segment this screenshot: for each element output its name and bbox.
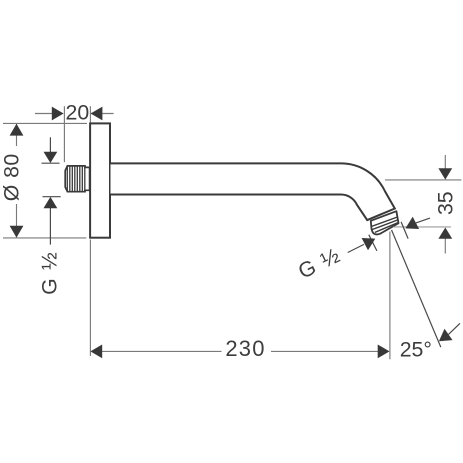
svg-text:25°: 25° [400,337,432,361]
G 1/2 outlet opposite arrow [416,218,430,223]
dim 35 top extension line [385,179,461,181]
knurl ridges [67,166,85,192]
dim 20 extension line left [63,106,65,162]
dim 20 dimension line left tail [35,113,114,115]
svg-text:Ø 80: Ø 80 [0,153,24,201]
dim 230 dimension line [102,350,379,352]
dim 230 arrowheads [90,345,389,359]
shower arm tube [111,163,395,220]
25 deg arc arrow [449,323,461,334]
dim O80 dimension line [16,124,18,237]
dim 35 bottom extension line [393,226,451,228]
svg-text:G ½: G ½ [38,251,62,295]
dim O80 bottom extension line [3,237,86,239]
wall plate P1 [90,123,110,237]
G 1/2 outlet tick lower-left [369,235,377,251]
25 deg line from nozzle [392,230,441,347]
svg-text:20: 20 [66,101,90,125]
dim 35 arrow top [444,155,446,169]
G 1/2 outlet tick upper-right [401,222,408,239]
dim 35 arrow bottom [444,239,446,254]
G 1/2 outlet leader arrow [348,244,364,252]
svg-text:230: 230 [225,336,265,361]
G 1/2 pointer arrow down [49,137,51,152]
knurled wall fitting body [65,166,89,192]
svg-text:35: 35 [433,191,457,215]
G 1/2 pointer arrow up [49,208,51,245]
dim O80 arrowheads [10,124,24,238]
dim O80 top extension line [3,122,87,124]
dim 230 extension line right (from nozzle tip) [389,232,391,360]
dim 20 arrowheads [52,107,103,121]
nozzle thread N1 [371,211,399,234]
dim 230 extension line left (plate edge extended down) [89,240,91,356]
dim 20 extension line right (plate edge extended) [89,106,91,123]
G 1/2 pointer ticks (wall thread) [42,163,61,197]
